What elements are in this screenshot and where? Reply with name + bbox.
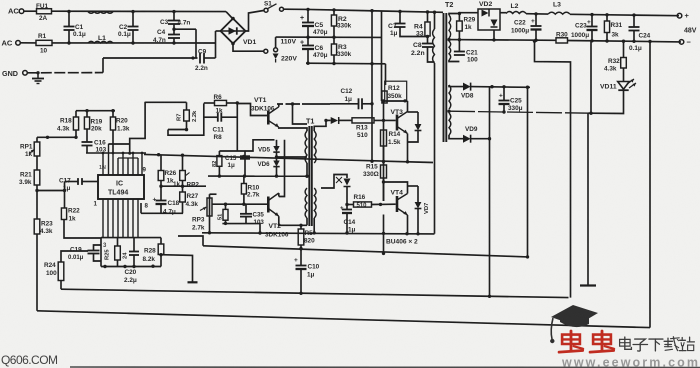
resistor R13 510 [352,118,374,123]
LED VD11 [623,68,625,82]
wire VT3 emitter down [407,134,409,162]
wire HV feed vertical x372 [371,11,373,162]
capacitor C16 103 [82,141,93,143]
capacitor C8 2.2n [427,37,429,44]
watermark text chongchong [570,331,573,351]
capacitor C2 0.1u [132,12,134,27]
wire drive rail y176 [208,175,307,177]
zener VD near C14 [321,175,347,189]
wire T1 top feed [293,104,308,124]
wire VT2 emitter to R5 [279,216,307,225]
wire C23 return to ground [588,41,591,113]
T1 feedback winding [314,131,316,163]
IC U1 TL494 [98,175,144,199]
wire output minus drop [649,42,651,328]
wire bridge top to AC line [226,12,233,19]
capacitor C6 470u [307,37,309,45]
wire T1 feedback to VT3 [326,119,331,121]
wire R21 junction to R22 [37,190,65,192]
wire RP1 top link [37,136,76,138]
resistor R31 3k [606,15,608,21]
IC top pins [102,153,104,175]
capacitor C5 470u [306,8,309,11]
wire AC top [24,10,37,12]
diode VD3 [331,117,338,124]
wire R26 RP2 junction [161,185,206,187]
capacitor C1 0.1u [68,12,70,27]
resistor R3 330k [333,37,335,44]
wire rectifier loop vertical [489,87,491,297]
wire VT1 collector [278,104,280,107]
wire output + rail [570,14,679,15]
wire IC right rail [144,154,433,162]
wire VD mid to T1 [277,156,308,158]
wire VD5 bypass loop [279,140,285,197]
T2 aux winding [449,15,451,38]
ground symbol at input [36,71,39,74]
wire to ground T [161,255,193,282]
wire AC bottom [20,42,36,44]
wire emitter rail y233 [202,233,435,234]
capacitor C11 [217,113,219,122]
T1 lower right winding [314,188,316,218]
wire PWM return rail [203,246,528,257]
IC bottom pins [102,199,104,238]
T1 primary winding [305,131,307,163]
wire feedback rail B1 [61,289,569,297]
capacitor C23 1000u [591,15,593,27]
resistor R2 330k [333,10,335,15]
capacitor C22 1000u [535,14,537,26]
capacitor C24 0.1u [633,15,635,27]
inductor L1 common-mode choke [88,12,113,14]
wire VT3 collector [407,101,409,112]
wire top rail to transformer T2 [382,11,444,12]
capacitor C4 4.7n [173,24,175,35]
wire HV mid rail [276,36,382,38]
wire HV- drop x385.5 [385,64,387,85]
resistor R14 1.5k [381,130,387,146]
terminal output minus [679,40,684,45]
wire R11 C35 bottom [222,224,260,233]
terminal output plus 48V [677,13,682,18]
wire HV- rail [306,62,386,65]
capacitor C21 100 [454,51,465,53]
wire R8 C15 top [219,140,274,151]
resistor R32 4.3k [623,41,625,57]
wire VT2 collector [278,193,280,197]
wire C18 R27 bottom [141,212,183,214]
resistor R12 350k [385,81,407,101]
wire HV+ rail [308,9,382,11]
diode VD4 antiparallel [417,112,419,124]
wire VD2 out [500,12,506,14]
wire VT4 collector [384,182,408,194]
wire top rail of R18 R19 R20 [76,110,115,112]
T2 output winding [449,85,451,109]
IC bottom bus [101,237,161,239]
wire T2 feedback drop [527,87,529,257]
capacitor C9 2.2n [199,53,201,64]
wire bridge bottom to selector [233,43,264,51]
wire output centre tap rail [449,111,591,113]
capacitor C25 330u [503,87,505,101]
wire R6 right node [236,103,238,151]
capacitor C3 4.7n [173,12,175,21]
T1 lower left winding [305,188,307,218]
wire staircase pin to R7 [109,143,130,145]
watermark graduation cap [550,305,598,343]
wire main drive bus x383.5 [381,11,383,101]
wire AC to bridge [215,31,217,58]
resistor R29 1k [458,12,461,15]
bridge rectifier VD1 [221,19,246,44]
ground symbol left [188,281,198,283]
T2 primary winding [434,12,436,29]
capacitor C7 1u [399,12,401,24]
diode VD9 [463,135,471,143]
ground symbol mid [580,284,596,286]
wire C3 C4 midpoint to ground line [174,28,196,30]
resistor R4 33 [427,12,429,22]
wire VT4 base [372,203,396,205]
wire feedback rail B2 [37,311,650,328]
wire GND run [27,72,103,74]
wire VT2 base rail [212,203,267,205]
wire VT4 emitter down [407,215,409,234]
wire minus to opto column [535,41,571,298]
wire bottom edge line [70,366,700,368]
wire VT1 emitter to T1 [279,127,307,131]
watermark text site name [620,339,631,346]
voltage selector 110V/220V [264,49,268,53]
wire R7 bottom loop [185,128,188,131]
aux/secondary common rail [448,39,556,42]
wire bridge right to switch S1 [245,11,264,32]
diode VD7 [417,186,419,202]
diode VD8 [463,83,471,91]
